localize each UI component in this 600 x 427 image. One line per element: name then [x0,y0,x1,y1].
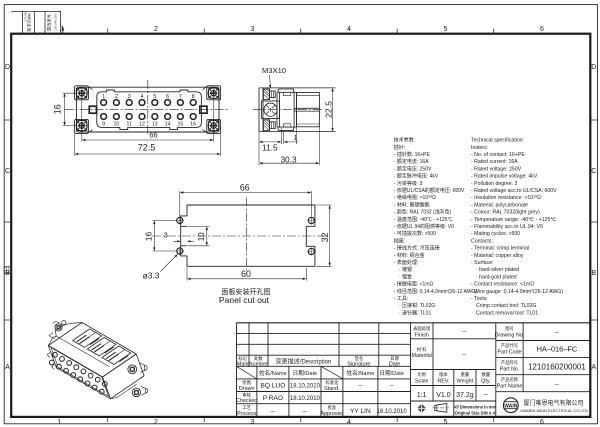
svg-text:· 镀银: · 镀银 [399,266,412,273]
svg-text:11: 11 [127,122,132,128]
svg-text:插针:: 插针: [394,144,405,151]
svg-text:60: 60 [241,269,251,279]
svg-text:- 插针数: 16+PE: - 插针数: 16+PE [394,151,431,158]
svg-text:- 可插拔次数: >500: - 可插拔次数: >500 [394,230,436,237]
svg-text:All Dimensions in mm: All Dimensions in mm [453,404,496,409]
svg-text:3: 3 [251,26,255,33]
svg-text:8: 8 [192,94,195,100]
svg-text:1: 1 [294,135,298,142]
svg-text:C: C [5,168,10,175]
svg-text:厦门唯恩电气有限公司: 厦门唯恩电气有限公司 [523,399,583,407]
svg-text:变更描述/Description: 变更描述/Description [276,358,332,366]
svg-text:Signature: Signature [347,361,370,367]
svg-text:- Rated voltage: 250V: - Rated voltage: 250V [471,166,522,172]
svg-text:姓名/Name: 姓名/Name [347,369,375,377]
svg-text:· 镀金: · 镀金 [399,273,412,280]
svg-text:产品料号: 产品料号 [501,359,518,366]
svg-text:Crimp contact tool: TL02G: Crimp contact tool: TL02G [476,303,536,309]
svg-text:技术参数:: 技术参数: [394,137,415,144]
svg-text:- No. of contact: 16+PE: - No. of contact: 16+PE [471,152,525,158]
svg-text:- Material: polycarbonate: - Material: polycarbonate [471,202,528,208]
svg-text:- Rated voltage acc.to UL/CSA:: - Rated voltage acc.to UL/CSA: 600V [471,188,557,194]
svg-text:Part Name: Part Name [497,384,523,390]
svg-text:4: 4 [141,94,144,100]
svg-text:Drawing No.: Drawing No. [495,332,525,338]
svg-text:更改单号: 更改单号 [46,14,53,31]
svg-text:数量: 数量 [482,371,491,378]
svg-text:插座:: 插座: [394,237,405,244]
svg-text:1210160200001: 1210160200001 [528,362,586,371]
svg-text:· 退针器: TL01: · 退针器: TL01 [399,309,431,316]
svg-text:材 料: 材 料 [417,346,427,353]
svg-text:11.5: 11.5 [262,143,278,153]
svg-text:Original Size DIN A 4: Original Size DIN A 4 [455,411,496,416]
svg-text:- 绝缘电阻: >1010Ω: - 绝缘电阻: >1010Ω [394,194,436,201]
svg-text:30.3: 30.3 [281,155,297,164]
svg-text:- 工具:: - 工具: [394,296,408,302]
svg-text:5: 5 [153,94,156,100]
svg-text:2: 2 [115,94,118,100]
svg-text:HA–016–FC: HA–016–FC [537,345,578,354]
svg-text:16: 16 [52,104,62,114]
svg-text:- Surface:: - Surface: [471,260,494,266]
svg-text:–: – [303,408,307,415]
svg-text:BQ LUO: BQ LUO [260,383,285,390]
svg-text:Approved: Approved [320,411,343,417]
svg-text:Number: Number [249,361,268,367]
svg-text:V1.0: V1.0 [436,392,451,399]
svg-text:Materilal: Materilal [412,353,432,359]
svg-text:175 88: 175 88 [24,12,28,22]
svg-text:–: – [555,381,559,388]
svg-text:18.10.2010: 18.10.2010 [377,409,408,415]
svg-text:C: C [591,168,596,175]
svg-text:Part Code: Part Code [497,349,521,355]
svg-text:表面处理: 表面处理 [413,325,431,332]
svg-text:Qty.: Qty. [481,378,490,384]
svg-text:- Rated impulse voltage: 4kV: - Rated impulse voltage: 4kV [471,174,538,180]
svg-text:16: 16 [144,232,154,242]
svg-text:32: 32 [320,233,330,243]
svg-text:XIAMEN WAIN ELECTRICAL CO.LTD: XIAMEN WAIN ELECTRICAL CO.LTD [520,408,588,413]
svg-text:- 表面处理:: - 表面处理: [394,259,418,266]
svg-text:Scale: Scale [415,378,429,384]
svg-text:Contacts:: Contacts: [471,238,493,244]
svg-text:–: – [484,392,488,399]
svg-text:- Material: copper alloy: - Material: copper alloy [471,253,524,259]
svg-text:- 材料: 铜合金: - 材料: 铜合金 [394,252,425,259]
svg-text:1: 1 [58,419,62,426]
svg-text:Date: Date [389,361,400,367]
svg-text:· 压接钳: TL02G: · 压接钳: TL02G [399,302,435,309]
svg-text:126 249 230: 126 249 230 [54,14,58,31]
svg-text:3: 3 [128,94,131,100]
svg-text:1: 1 [102,94,105,100]
svg-text:WAIN: WAIN [504,403,517,409]
svg-text:- 依据UL 94的阻燃等级: V0: - 依据UL 94的阻燃等级: V0 [394,223,454,230]
svg-text:37.2g: 37.2g [456,392,474,399]
svg-text:- Mating cycles: >500: - Mating cycles: >500 [471,231,520,237]
svg-text:日期/Date: 日期/Date [379,370,404,377]
svg-text:Process: Process [237,411,257,417]
svg-text:- 材料: 聚碳酸酯: - 材料: 聚碳酸酯 [394,201,430,208]
svg-text:–: – [359,383,363,390]
svg-text:D: D [5,64,10,71]
svg-text:- 接线方式: 冷压连接: - 接线方式: 冷压连接 [394,245,440,252]
svg-text:A: A [591,364,596,371]
svg-text:版本: 版本 [439,371,448,378]
svg-text:Stand.: Stand. [324,386,340,392]
svg-text:Insters:: Insters: [471,145,488,151]
svg-text:- Rated current: 16A: - Rated current: 16A [471,159,518,165]
svg-text:B: B [5,270,10,277]
svg-text:Technical specification:: Technical specification: [471,138,524,144]
svg-text:日期/Date: 日期/Date [293,370,318,377]
svg-text:66: 66 [149,131,157,140]
svg-text:ø3.3: ø3.3 [143,271,160,281]
svg-text:Drawn: Drawn [239,386,255,392]
svg-text:2: 2 [154,419,158,426]
svg-text:6: 6 [540,419,544,426]
svg-text:4: 4 [347,419,351,426]
svg-text:72.5: 72.5 [138,143,156,153]
svg-text:–: – [463,329,467,336]
svg-text:–: – [271,408,275,415]
svg-text:15: 15 [178,122,184,128]
svg-text:YY LIN: YY LIN [350,408,371,415]
svg-text:10: 10 [197,232,206,241]
svg-text:- Flammability acc.to UL 94: V: - Flammability acc.to UL 94: V0 [471,224,543,230]
svg-text:Contact removal tool: TL01: Contact removal tool: TL01 [476,310,538,316]
svg-text:1: 1 [61,26,65,33]
svg-text:13: 13 [152,122,158,128]
svg-text:–: – [463,352,467,359]
svg-text:· hard-gold plated: · hard-gold plated [476,274,517,280]
svg-text:1:1: 1:1 [417,392,427,399]
svg-text:6: 6 [166,94,169,100]
svg-text:- 额定电流: 16A: - 额定电流: 16A [394,158,429,165]
svg-text:3: 3 [251,419,255,426]
svg-text:姓名/Name: 姓名/Name [259,369,287,377]
svg-text:A: A [5,364,10,371]
svg-text:5: 5 [444,419,448,426]
svg-text:Panel cut out: Panel cut out [219,295,270,305]
svg-text:D: D [591,64,596,71]
svg-text:22.5: 22.5 [323,101,333,118]
svg-text:9: 9 [102,122,105,128]
svg-text:M3X10: M3X10 [262,66,286,75]
svg-text:- Terminal: crimp terminal: - Terminal: crimp terminal [471,246,529,252]
svg-text:Mark: Mark [237,361,249,367]
svg-text:- Tools:: - Tools: [471,296,488,302]
svg-text:4: 4 [347,26,351,33]
svg-text:· hard-silver plated: · hard-silver plated [476,267,519,273]
svg-text:7: 7 [179,94,182,100]
svg-text:- 依据UL/CSA的额定电压: 600V: - 依据UL/CSA的额定电压: 600V [394,187,465,194]
svg-text:16: 16 [190,122,196,128]
svg-text:图号: 图号 [505,326,514,332]
svg-text:–: – [555,329,559,336]
svg-text:- Colour: RAL 7032(light grey): - Colour: RAL 7032(light grey) [471,210,540,216]
svg-text:- Wire gauge: 0.14-4.0mm²(26-1: - Wire gauge: 0.14-4.0mm²(26-12 AWG) [471,289,563,295]
svg-text:REV.: REV. [437,378,449,384]
svg-text:2: 2 [154,26,158,33]
svg-text:- Insulation resistance: >1010: - Insulation resistance: >1010Ω [471,194,541,201]
svg-text:- Contact resistance: <1mΩ: - Contact resistance: <1mΩ [471,282,534,288]
svg-text:12: 12 [139,122,145,128]
svg-text:产品名称: 产品名称 [501,376,519,383]
svg-text:- Pollution degree: 3: - Pollution degree: 3 [471,181,518,187]
svg-text:–: – [390,383,394,390]
svg-text:- 额定脉冲电压: 4kV: - 额定脉冲电压: 4kV [394,173,439,180]
svg-text:5: 5 [444,26,448,33]
svg-text:10: 10 [114,122,120,128]
svg-text:Checked: Checked [236,398,257,404]
svg-text:重量: 重量 [461,371,470,378]
svg-text:6: 6 [540,26,544,33]
svg-text:- 颜色: RAL 7032 (浅灰色): - 颜色: RAL 7032 (浅灰色) [394,209,452,216]
svg-text:比例: 比例 [417,371,426,378]
svg-text:- 接触电阻: <1mΩ: - 接触电阻: <1mΩ [394,281,434,288]
svg-text:- 线径范围: 0.14-4.0mm²(26-12 AWG): - 线径范围: 0.14-4.0mm²(26-12 AWG) [394,288,477,295]
svg-text:B: B [591,270,596,277]
svg-text:产品代号: 产品代号 [501,342,518,349]
svg-text:Part No.: Part No. [500,367,520,373]
svg-text:Finish: Finish [415,332,429,338]
svg-text:- 温度范围: -40℃ - +125℃: - 温度范围: -40℃ - +125℃ [394,216,453,223]
svg-text:18.10.2010: 18.10.2010 [290,384,321,390]
svg-text:14: 14 [165,122,171,128]
svg-text:66: 66 [240,183,250,193]
svg-text:- 污染等级: 3: - 污染等级: 3 [394,180,423,187]
svg-text:P RAO: P RAO [263,395,283,402]
svg-text:18.10.2010: 18.10.2010 [290,396,321,402]
svg-text:- 额定电压: 250V: - 额定电压: 250V [394,165,432,172]
svg-text:- Temperature range: -40℃ - +1: - Temperature range: -40℃ - +125℃ [471,217,556,223]
svg-text:Weight: Weight [457,378,474,384]
svg-text:3: 3 [164,230,168,239]
svg-text:工艺: 工艺 [242,405,251,410]
